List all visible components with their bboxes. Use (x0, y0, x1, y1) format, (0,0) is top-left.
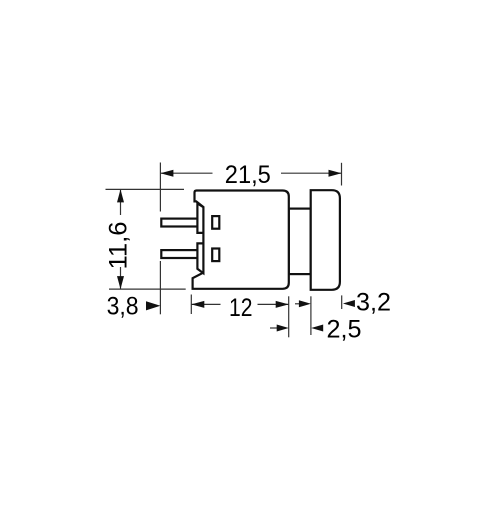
extension line cap left (x=310.9) (310, 296, 312, 335)
svg-text:11,6: 11,6 (104, 222, 132, 270)
neck between body and front cap (289, 209, 311, 275)
extension line cap right (x=341.7) (341, 295, 343, 309)
body outline (193, 191, 289, 289)
extension line top of 11,6 (y=189.4) (106, 188, 185, 190)
pin 1 (upper lead) (161, 219, 198, 227)
dimension 12 line right part (258, 303, 289, 305)
pin 2 (lower lead) (161, 250, 198, 258)
contact window 1 inside body (212, 216, 219, 229)
dimension 11,6 line upper part (120, 190, 122, 216)
extension line left (x=160.4) lower segment (159, 261, 161, 314)
contact window 2 inside body (212, 249, 219, 262)
arrow 21,5 left (160, 170, 173, 177)
arrow 3,2 right (points left to cap right edge) (343, 300, 355, 307)
arrow 12 left (191, 301, 204, 308)
svg-text:3,8: 3,8 (107, 292, 139, 320)
extension line left (x=160.4) upper segment (159, 163, 161, 212)
arrow 2,5 left (points right to body right edge) (270, 327, 278, 329)
dimension 21,5 line left part (160, 172, 212, 174)
arrow 21,5 right (329, 170, 342, 177)
arrow 2,5 right (points left to cap left edge) (311, 325, 323, 332)
dimension 21,5 line right part (281, 172, 342, 174)
arrow 11,6 down (117, 276, 124, 289)
svg-text:21,5: 21,5 (225, 161, 271, 189)
boss flange upper (around pin 1) (197, 203, 203, 233)
extension line left of 12 (x=191.3) (190, 295, 192, 315)
arrow 3,8 pointing right at pin tip line (146, 301, 160, 310)
front cap outline (311, 190, 340, 290)
extension line bottom of 11,6 (y=289.1) (109, 288, 186, 290)
dimension 11,6 line lower part (120, 267, 122, 289)
extension line right of 21,5 (x=341.8) (341, 163, 343, 186)
boss flange lower (around pin 2) (197, 243, 203, 273)
svg-text:2,5: 2,5 (327, 316, 362, 344)
arrow 3,2 left (points right to cap left edge) (295, 303, 301, 305)
dimension 12 line left part (191, 303, 220, 305)
extension line right of 12 / left of 2,5 (x=288.7) (288, 296, 290, 337)
arrow 11,6 up (117, 189, 124, 202)
arrow 12 right (276, 301, 289, 308)
svg-text:3,2: 3,2 (356, 288, 391, 316)
svg-text:12: 12 (229, 294, 253, 322)
